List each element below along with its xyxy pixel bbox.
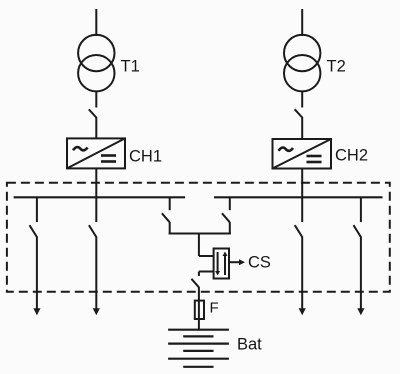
svg-text:CS: CS	[248, 254, 271, 272]
svg-text:T1: T1	[121, 57, 140, 75]
svg-text:Bat: Bat	[237, 336, 262, 354]
svg-text:CH1: CH1	[129, 148, 162, 166]
svg-text:T2: T2	[327, 57, 346, 75]
svg-text:F: F	[210, 300, 219, 317]
svg-text:CH2: CH2	[335, 147, 368, 165]
